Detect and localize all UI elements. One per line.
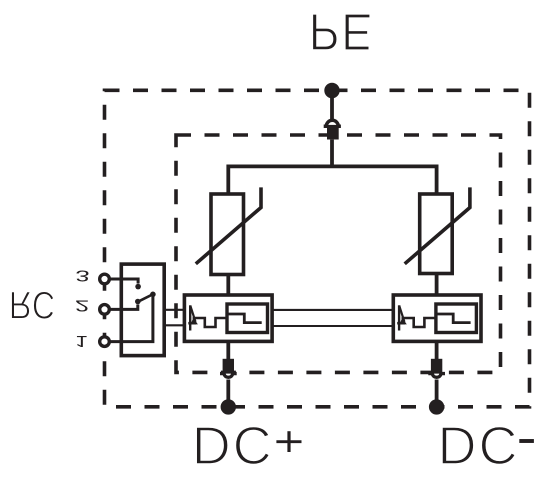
relay K1 box xyxy=(121,264,164,356)
contact dot NC xyxy=(135,299,141,305)
svg-text:DC: DC xyxy=(192,416,274,476)
label 2 xyxy=(75,297,89,315)
svg-text:2: 2 xyxy=(75,297,89,315)
wire RV1 to box xyxy=(226,275,230,297)
U2 outer box xyxy=(393,295,481,341)
varistor RV2 diagonal xyxy=(405,187,470,263)
wire common riser xyxy=(109,294,153,341)
U2 blade arrowhead xyxy=(400,319,405,324)
spark-gap unit U1 (left) xyxy=(184,295,272,341)
U1 switch blade xyxy=(190,306,195,322)
wire arc to DC- dot xyxy=(435,380,439,402)
U1 outer box xyxy=(184,295,272,341)
U2 switch blade xyxy=(399,306,404,322)
varistor RV1 body xyxy=(211,194,244,275)
DC- terminal dot xyxy=(429,399,444,414)
svg-text:DC: DC xyxy=(438,416,520,476)
DC+ terminal dot xyxy=(221,399,236,414)
inner dashed enclosure (pluggable module) xyxy=(176,135,501,372)
plug pin (bottom left filled square) xyxy=(223,359,234,374)
plug pin (bottom right filled square) xyxy=(431,359,442,374)
wire U1 to DC+ terminal xyxy=(226,341,230,359)
label RC xyxy=(9,283,55,327)
varistor RV1 diagonal xyxy=(196,187,261,263)
wire terminal 3 xyxy=(109,279,138,284)
wire PE stem lower xyxy=(330,140,334,168)
relay pivot dot xyxy=(150,292,156,298)
relay blade xyxy=(137,294,153,302)
label PE xyxy=(309,2,374,59)
double bus relay to left box xyxy=(164,310,184,326)
svg-text:PE: PE xyxy=(309,2,374,59)
U2 switch pole xyxy=(398,305,400,330)
minus sign xyxy=(519,439,534,443)
plug socket arc (bottom left, omega) xyxy=(220,374,237,378)
contact dot NO xyxy=(135,284,141,290)
U1 contact bar xyxy=(188,322,196,325)
U1 square wave xyxy=(193,318,227,327)
terminal 1 circle xyxy=(100,337,110,347)
terminal 3 circle xyxy=(100,274,110,284)
svg-text:RC: RC xyxy=(9,283,55,327)
U2 inner step symbol xyxy=(436,314,471,323)
terminal 2 circle xyxy=(100,305,110,315)
svg-text:1: 1 xyxy=(75,332,87,350)
label 1 xyxy=(75,332,87,350)
U2 inner box xyxy=(436,304,477,333)
spark-gap unit U2 (right) xyxy=(393,295,481,341)
svg-text:3: 3 xyxy=(75,267,89,285)
outer dashed enclosure xyxy=(105,90,530,407)
label 3 xyxy=(75,267,89,285)
wire RV2 to box xyxy=(435,274,439,297)
varistor RV2 body xyxy=(420,194,453,274)
plug socket arc (top, omega) xyxy=(324,120,341,126)
wire arc to DC+ dot xyxy=(226,380,230,402)
wire top bus xyxy=(228,166,436,195)
wire terminal 2 xyxy=(109,305,138,310)
U2 square wave xyxy=(402,318,436,327)
U1 blade arrowhead xyxy=(192,319,197,324)
wire PE stem upper xyxy=(330,92,334,121)
U1 inner box xyxy=(227,304,268,333)
PE terminal dot xyxy=(324,83,339,98)
U2 contact bar xyxy=(397,322,405,325)
plus sign xyxy=(276,440,301,443)
plug pin (top filled square) xyxy=(327,125,339,140)
U1 inner step symbol xyxy=(227,314,262,323)
U1 switch pole xyxy=(189,305,191,330)
wire U2 to DC- terminal xyxy=(435,341,439,359)
plug socket arc (bottom right, omega) xyxy=(428,374,445,378)
double bus left box to right box xyxy=(272,310,393,326)
